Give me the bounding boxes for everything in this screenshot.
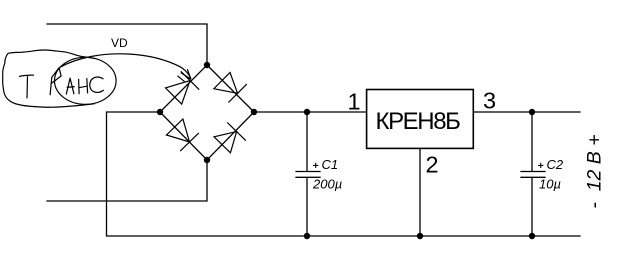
svg-text:VD: VD (111, 36, 128, 50)
svg-text:3: 3 (483, 88, 496, 114)
svg-text:1: 1 (348, 89, 361, 115)
svg-text:10µ: 10µ (539, 177, 561, 192)
svg-text:2: 2 (426, 152, 439, 178)
svg-text:C2: C2 (547, 157, 564, 172)
svg-text:КРЕН8Б: КРЕН8Б (375, 108, 460, 135)
svg-text:- 12 В +: - 12 В + (584, 134, 606, 208)
svg-text:200µ: 200µ (312, 177, 342, 192)
svg-text:C1: C1 (322, 157, 339, 172)
